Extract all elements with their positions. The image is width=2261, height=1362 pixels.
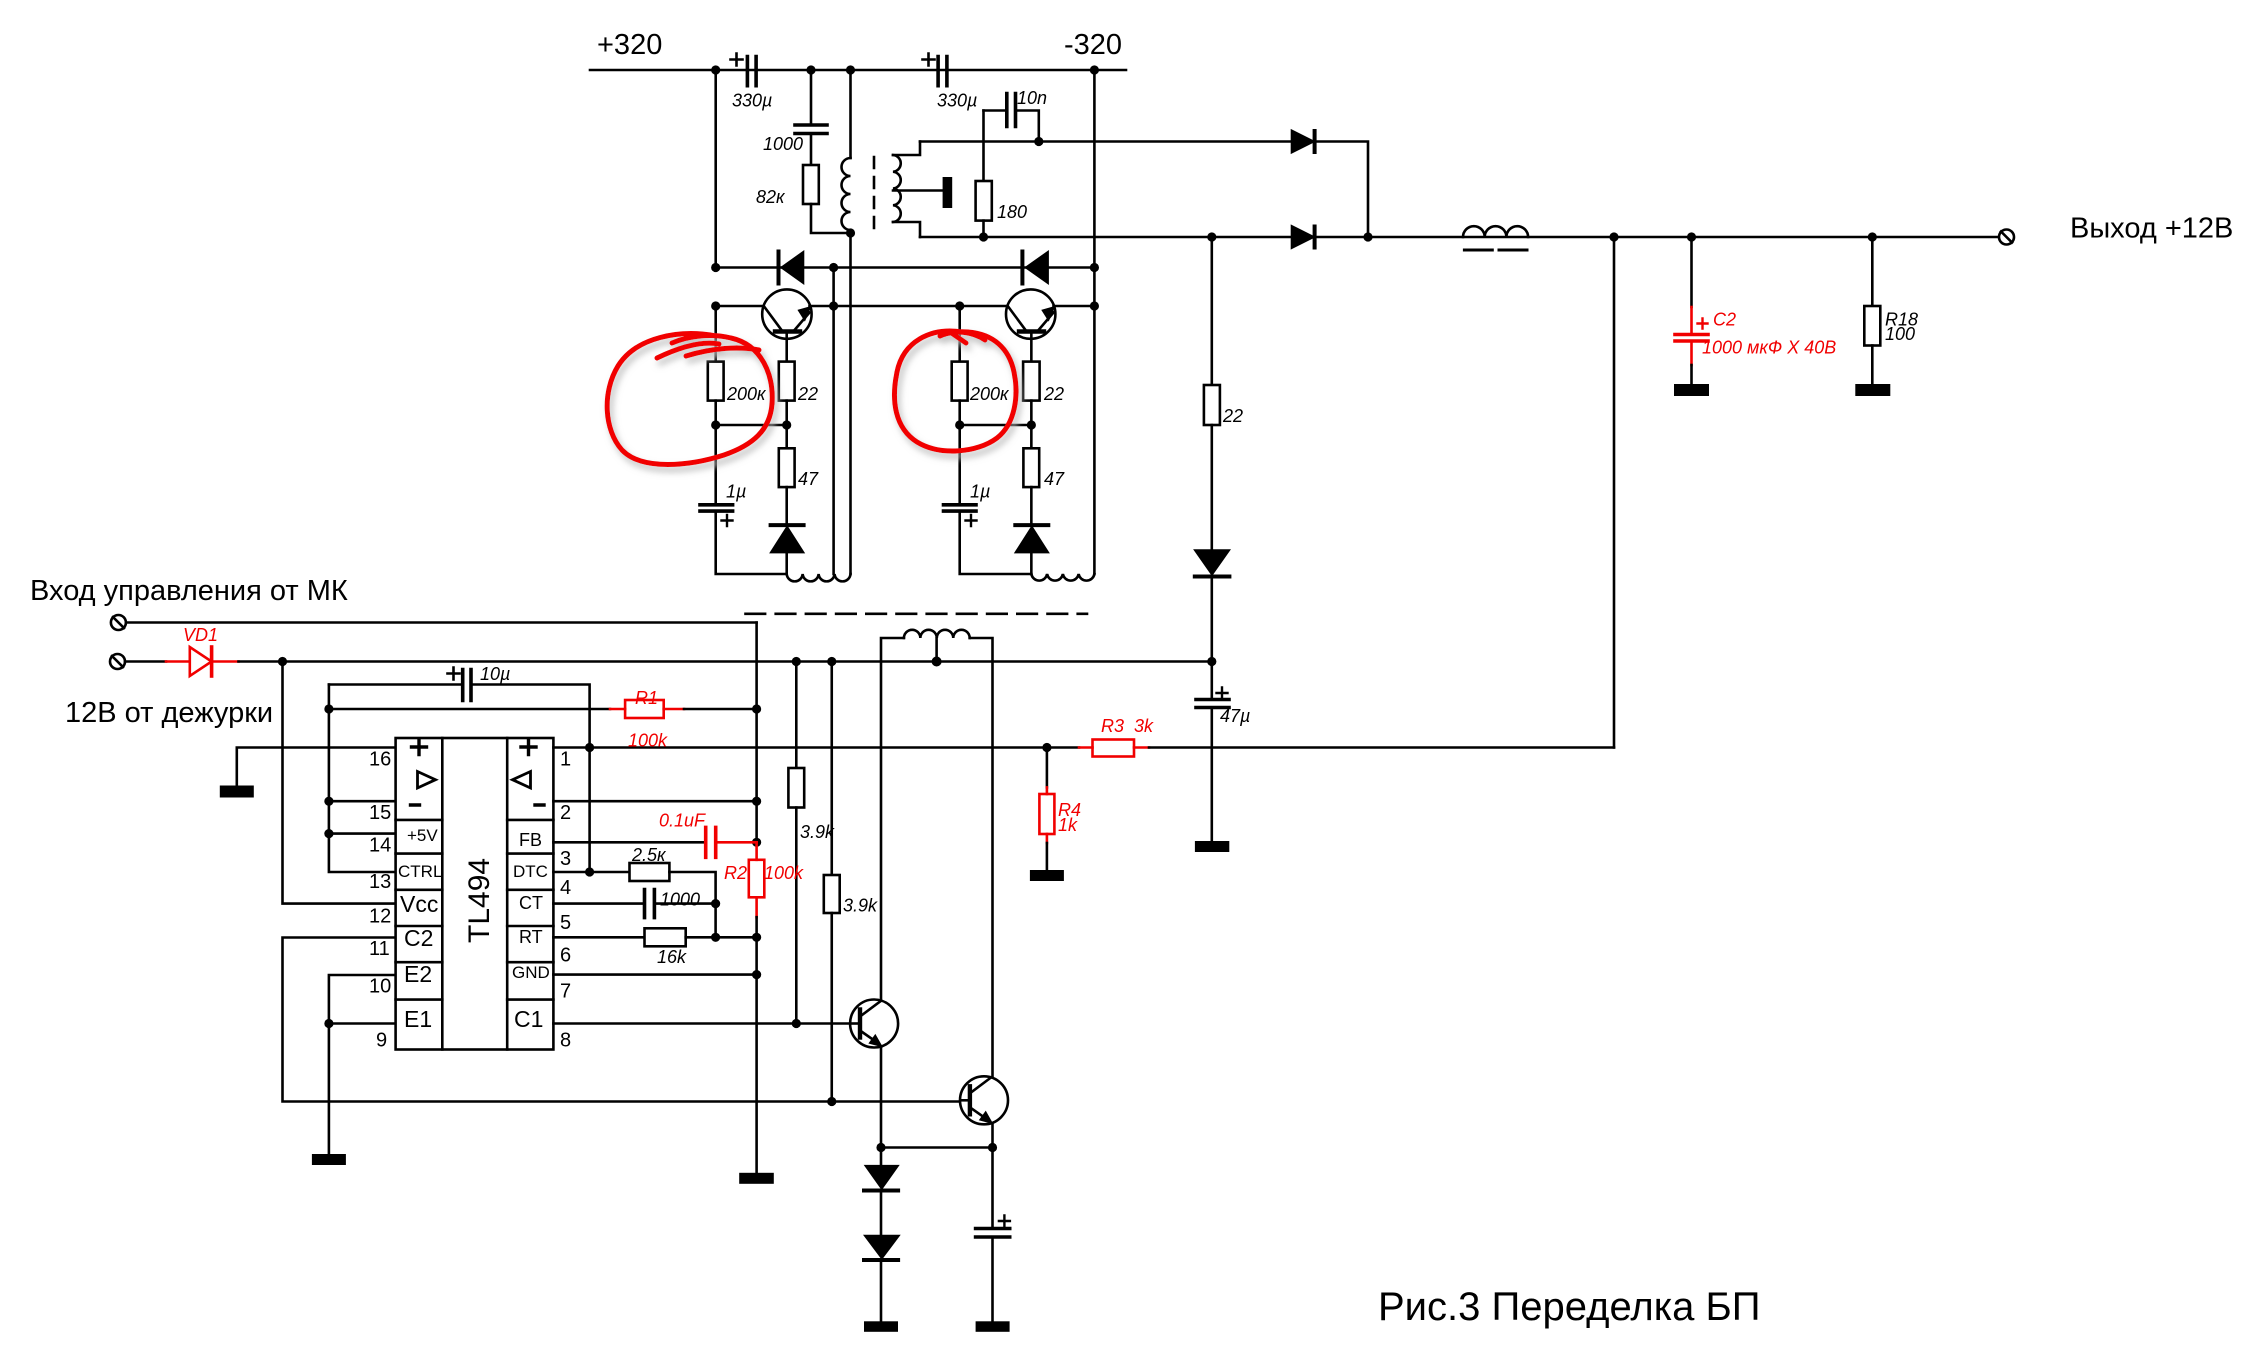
terminal input 12V standby xyxy=(110,654,125,669)
svg-text:1µ: 1µ xyxy=(970,482,990,502)
transformer core dashed line xyxy=(873,157,876,231)
wire 10n left down to resistor 180 xyxy=(982,111,985,182)
node pin2 junction xyxy=(752,797,761,806)
capacitor C2 plus sign xyxy=(1698,319,1708,329)
svg-text:Vcc: Vcc xyxy=(400,891,438,917)
node Q3 emitter junction xyxy=(876,1143,885,1152)
svg-text:1000: 1000 xyxy=(763,134,803,154)
wire left vertical from rail x715.7 down xyxy=(714,70,717,268)
svg-text:14: 14 xyxy=(369,835,391,857)
node T4 base bus at 3.9k xyxy=(827,1097,836,1106)
svg-text:10µ: 10µ xyxy=(480,664,510,684)
node diode row left x715.7 xyxy=(711,263,720,272)
transistor Q3 xyxy=(850,1000,898,1048)
svg-text:1000: 1000 xyxy=(660,890,700,910)
capacitor C2 red body xyxy=(1690,307,1693,335)
svg-text:3.9k: 3.9k xyxy=(843,896,878,916)
node 200k right top x959.7 xyxy=(955,301,964,310)
wire secondary right end down to T4 collector xyxy=(970,638,993,1077)
wire -320 vertical x1094.4 down to cell winding xyxy=(1093,70,1096,574)
diode VD1 red xyxy=(166,660,190,663)
svg-text:TL494: TL494 xyxy=(463,858,496,943)
transformer T1 secondary right winding xyxy=(893,155,901,222)
wire pin1 row y747.5 left part xyxy=(553,746,1079,749)
svg-text:16: 16 xyxy=(369,749,391,771)
wire upper rectifier line y141.5 xyxy=(920,140,1292,143)
node collector row x715.7 xyxy=(711,301,720,310)
node R1 left xyxy=(324,704,333,713)
svg-text:22: 22 xyxy=(1222,406,1243,426)
node rail junction B x811 xyxy=(806,65,815,74)
resistor R1 red xyxy=(610,708,625,711)
node 22 column top xyxy=(1207,232,1216,241)
svg-text:Выход +12В: Выход +12В xyxy=(2070,213,2233,245)
resistor 200k left xyxy=(708,362,724,401)
capacitor electrolytic Q4 emitter top lead xyxy=(991,1148,994,1229)
svg-text:Вход управления от МК: Вход управления от МК xyxy=(30,575,348,607)
wire pin9 E1 xyxy=(329,1022,396,1025)
diode clamp D6 triangle xyxy=(866,1236,899,1258)
wire pin3 FB black part xyxy=(553,841,705,844)
transformer T1 primary left winding xyxy=(842,158,851,230)
transistor Q1 xyxy=(762,289,811,338)
svg-text:47µ: 47µ xyxy=(1220,706,1250,726)
resistor R18 xyxy=(1864,306,1880,346)
wire 10n right lead down to node xyxy=(1016,111,1039,142)
node 12V at 3.9k second xyxy=(827,657,836,666)
diode rectifier bottom cathode bar xyxy=(1313,227,1317,248)
wire pin6 RT xyxy=(553,936,644,939)
capacitor 1000 plates xyxy=(795,125,827,134)
resistor 47 left top lead xyxy=(785,425,788,448)
diode snubber right cathode bar xyxy=(1020,252,1024,284)
diode rectifier top cathode bar xyxy=(1313,131,1317,152)
node GND pin7 junction xyxy=(752,970,761,979)
svg-text:8: 8 xyxy=(560,1030,571,1052)
wire secondary center tap xyxy=(935,638,938,662)
diode clamp D5 bar xyxy=(864,1189,898,1193)
wire 200k right top lead xyxy=(958,306,961,362)
svg-text:1µ: 1µ xyxy=(726,482,746,502)
svg-text:16k: 16k xyxy=(657,947,687,967)
capacitor electrolytic plus xyxy=(999,1216,1010,1227)
capacitor 47u plus xyxy=(1217,688,1228,699)
node output junction feedback x1614 xyxy=(1609,232,1618,241)
resistor 47 right xyxy=(1023,448,1039,487)
wire pin10 E2 L down to E1 xyxy=(329,975,396,1154)
node output junction C2 x1691.5 xyxy=(1687,232,1696,241)
wire 82k bottom to transformer primary xyxy=(811,204,851,233)
svg-text:9: 9 xyxy=(376,1030,387,1052)
capacitor 10u top wire left xyxy=(329,683,463,686)
node emitter row x833.6 xyxy=(829,301,838,310)
wire top diode to output line xyxy=(1315,142,1368,238)
resistor R2 red xyxy=(755,842,758,860)
wire emitter link y1147.5 xyxy=(881,1146,993,1149)
wire feedback bus vertical x756.6 lower xyxy=(755,917,758,1173)
transformer screen tap electrode xyxy=(943,177,953,208)
wire secondary top to node y141.5 xyxy=(893,142,920,156)
resistor 82k xyxy=(803,165,819,204)
node diode row x833.6 xyxy=(829,263,838,272)
svg-text:82к: 82к xyxy=(756,187,786,207)
wire 22 column top lead x1211.8 xyxy=(1211,237,1214,385)
wire 22 right bottom lead xyxy=(1030,401,1033,425)
svg-text:6: 6 xyxy=(560,945,571,967)
node emitter row x1094.4 xyxy=(1090,301,1099,310)
wire pin14 xyxy=(329,832,396,835)
wire control input to feedback bus xyxy=(126,621,757,624)
svg-text:3: 3 xyxy=(560,848,571,870)
svg-text:2: 2 xyxy=(560,802,571,824)
node connector left A xyxy=(711,420,720,429)
winding feedback left cell xyxy=(787,574,851,581)
svg-text:13: 13 xyxy=(369,871,391,893)
svg-text:DTC: DTC xyxy=(513,862,548,881)
diode cell left triangle up xyxy=(772,528,803,553)
capacitor 1000 timing plates xyxy=(645,890,655,918)
wire 1000 right to node xyxy=(654,902,715,905)
wire pin15 xyxy=(329,800,396,803)
capacitor 10u plates xyxy=(463,670,471,701)
wire Q3 emitter down xyxy=(880,1047,883,1148)
wire R4 top lead xyxy=(1046,748,1049,788)
node E1 junction xyxy=(324,1019,333,1028)
wire pin4 DTC xyxy=(553,871,629,874)
capacitor 330u left plates xyxy=(747,57,756,86)
diode snubber left cathode bar xyxy=(777,252,781,284)
svg-text:12: 12 xyxy=(369,906,391,928)
wire 47 left bottom lead xyxy=(785,487,788,525)
node R1 right end xyxy=(752,704,761,713)
svg-text:+320: +320 xyxy=(597,29,662,61)
svg-text:E2: E2 xyxy=(404,961,432,987)
svg-text:VD1: VD1 xyxy=(183,625,218,645)
wire feedback bus vertical x756.6 upper xyxy=(755,623,758,843)
wire 180 bottom to line y237 xyxy=(982,221,985,237)
svg-text:330µ: 330µ xyxy=(937,91,977,111)
resistor R3 red xyxy=(1079,746,1093,749)
wire 200k left top lead xyxy=(714,306,717,362)
node 180 bottom junction xyxy=(979,232,988,241)
svg-text:-320: -320 xyxy=(1064,29,1122,61)
diode cell right triangle up xyxy=(1016,528,1047,553)
wire 10u loop left vertical x328.9 xyxy=(329,685,396,873)
resistor 3.9k first xyxy=(788,768,804,808)
capacitor 47u top lead xyxy=(1211,662,1214,700)
node 12V at 3.9k first xyxy=(792,657,801,666)
diode column cathode bar xyxy=(1195,575,1230,579)
wire output line y237 xyxy=(920,236,1999,239)
wire Vcc feed x282.5 xyxy=(283,662,396,904)
wire rail to primary winding top x850.5 xyxy=(849,70,852,158)
capacitor 0.1uF red xyxy=(706,827,716,857)
wire 2.5k right L down to CT node xyxy=(669,872,715,904)
wire 3.9k second bottom to base bus xyxy=(830,913,833,1102)
wire pin5 CT xyxy=(553,902,644,905)
op-amp U1 TL494 body xyxy=(396,738,554,1050)
wire pin11 C2 to bottom bus xyxy=(283,938,961,1102)
wire Q2 base lead to 22 xyxy=(1030,333,1033,362)
capacitor 47u plates xyxy=(1196,700,1229,708)
wire R18 top lead xyxy=(1871,237,1874,306)
svg-text:100: 100 xyxy=(1885,324,1915,344)
svg-text:330µ: 330µ xyxy=(732,91,772,111)
svg-text:200к: 200к xyxy=(969,384,1010,404)
svg-text:7: 7 xyxy=(560,981,571,1003)
svg-text:3.9k: 3.9k xyxy=(800,822,835,842)
transistor Q2 xyxy=(1006,289,1055,338)
wire R4 bottom lead xyxy=(1046,843,1049,870)
resistor 2.5k xyxy=(630,863,670,881)
ground 47u xyxy=(1195,841,1229,852)
node DTC junction xyxy=(585,867,594,876)
svg-text:10: 10 xyxy=(369,976,391,998)
capacitor 1u left plus xyxy=(722,515,733,526)
node FB junction xyxy=(752,838,761,847)
resistor 22 third xyxy=(1204,385,1220,425)
wire 47u bottom lead xyxy=(1211,708,1214,842)
wire diode left to winding xyxy=(785,552,788,574)
svg-text:R2: R2 xyxy=(724,863,747,883)
U1 right amp symbols plus minus triangle xyxy=(521,740,544,806)
wire 12V line left black segment xyxy=(125,660,166,663)
wire 200k left bottom lead xyxy=(714,401,717,425)
wire between clamp diodes xyxy=(880,1148,883,1237)
node junction 82k/primary x850.5 y233 xyxy=(846,228,855,237)
node 10n junction y141.5 xyxy=(1034,137,1043,146)
svg-text:CTRL: CTRL xyxy=(398,862,442,881)
node 12V line meets column x1211.8 xyxy=(1207,657,1216,666)
capacitor 1u left top lead xyxy=(714,425,717,505)
node RT junction R2 bottom xyxy=(752,933,761,942)
svg-text:180: 180 xyxy=(997,202,1027,222)
wire cap 1000 to resistor 82k xyxy=(810,134,813,166)
ground feedback bus xyxy=(739,1173,774,1184)
svg-text:1000 мкФ X 40В: 1000 мкФ X 40В xyxy=(1702,338,1836,358)
inductor core dashes xyxy=(1464,249,1527,252)
wire emitter row between cells xyxy=(810,305,1009,308)
svg-text:C2: C2 xyxy=(404,925,433,951)
node pin15 junction xyxy=(324,797,333,806)
wire cap bottom to ground xyxy=(991,1237,994,1321)
svg-text:15: 15 xyxy=(369,802,391,824)
resistor 47 left xyxy=(779,448,795,487)
svg-text:12В от дежурки: 12В от дежурки xyxy=(65,697,273,729)
svg-text:C1: C1 xyxy=(514,1006,543,1032)
wire 1u left bottom L to emitter column xyxy=(716,511,787,574)
transistor Q4 xyxy=(960,1076,1008,1124)
node C1 pullup junction xyxy=(792,1019,801,1028)
svg-text:10n: 10n xyxy=(1017,88,1047,108)
svg-text:+5V: +5V xyxy=(407,826,438,845)
wire 47 right bottom lead xyxy=(1030,487,1033,525)
node rail junction D x1094.4 xyxy=(1090,65,1099,74)
capacitor C2 top lead xyxy=(1690,237,1693,307)
node pin14 junction xyxy=(324,829,333,838)
wire 3.9k first bottom to C1 row xyxy=(795,808,798,1024)
svg-text:R1: R1 xyxy=(635,688,658,708)
wire emitter row right of Q2 xyxy=(1054,305,1095,308)
resistor 3.9k second top lead xyxy=(830,662,833,876)
svg-text:4: 4 xyxy=(560,877,571,899)
wire CT node down to RT node xyxy=(714,904,717,938)
wire D6 to ground xyxy=(880,1262,883,1321)
ground R4 xyxy=(1030,870,1064,881)
annotation red circle right xyxy=(894,331,1016,451)
wire x833.6 diode row down to winding xyxy=(832,268,835,575)
node T4 emitter junction xyxy=(988,1143,997,1152)
svg-text:C2: C2 xyxy=(1713,310,1736,330)
wire secondary left end down to T3 collector xyxy=(881,638,904,1000)
ground bottom cap xyxy=(976,1321,1010,1332)
wire diode right to winding xyxy=(1030,552,1033,574)
wire x811 rail to cap 1000 xyxy=(810,70,813,125)
wire snubber diode row y267.5 xyxy=(716,266,1095,269)
diode snubber right triangle xyxy=(1026,253,1047,283)
resistor 180 xyxy=(976,181,992,221)
diode column down triangle xyxy=(1196,551,1229,575)
inductor output choke xyxy=(1463,226,1528,237)
node connector right B xyxy=(1027,420,1036,429)
wire 12V line y661.5 xyxy=(239,660,1212,663)
node 12V at x282.5 xyxy=(278,657,287,666)
capacitor 330u left plus xyxy=(731,54,743,66)
resistor 3.9k first top lead xyxy=(795,662,798,769)
wire R18 bottom lead xyxy=(1871,346,1874,385)
capacitor electrolytic plates xyxy=(976,1229,1010,1238)
svg-text:47: 47 xyxy=(798,469,819,489)
terminal input control from MK xyxy=(111,615,126,630)
node rail junction A x715.7 xyxy=(711,65,720,74)
capacitor 1u right top lead xyxy=(958,425,961,505)
wire 200k right bottom lead xyxy=(958,401,961,425)
diode clamp D6 bar xyxy=(864,1258,898,1262)
svg-text:200к: 200к xyxy=(726,384,767,404)
diode rectifier top triangle xyxy=(1292,131,1313,152)
node connector left B xyxy=(782,420,791,429)
capacitor 10n plates xyxy=(1007,94,1016,127)
resistor 16k xyxy=(645,928,686,946)
winding feedback right cell xyxy=(1031,574,1094,581)
wire pin2 xyxy=(553,800,756,803)
ground pin16 xyxy=(220,786,254,798)
wire primary winding bottom to cell winding x850.5 xyxy=(849,230,852,574)
svg-text:1: 1 xyxy=(560,749,571,771)
svg-text:0.1uF: 0.1uF xyxy=(659,811,706,831)
wire pin1 row right part to feedback vertical xyxy=(1149,746,1614,749)
diode rectifier bottom triangle xyxy=(1292,227,1313,248)
node R4 junction xyxy=(1042,743,1051,752)
svg-text:1k: 1k xyxy=(1058,815,1078,835)
wire Q4 emitter down xyxy=(991,1123,994,1147)
diode clamp D5 triangle xyxy=(866,1166,897,1188)
ground E1/E2 xyxy=(312,1154,346,1165)
wire Q1 base lead to 22 xyxy=(785,333,788,362)
wire 22 left bottom lead xyxy=(785,401,788,425)
ground R18 xyxy=(1855,384,1890,396)
svg-text:CT: CT xyxy=(519,893,543,913)
svg-text:22: 22 xyxy=(1043,384,1064,404)
capacitor 1u right plus xyxy=(966,515,977,526)
capacitor 10n left lead xyxy=(984,109,1007,112)
resistor R4 red xyxy=(1046,787,1049,794)
wire 16k right to R2 bottom xyxy=(686,936,757,939)
wire +320/-320 top rail xyxy=(590,69,1126,72)
transformer core dashed line bottom xyxy=(746,612,1088,615)
svg-text:11: 11 xyxy=(369,938,390,960)
resistor 22 left xyxy=(779,362,795,401)
diode cell left cathode bar xyxy=(771,523,804,527)
wire 22 bottom to diode xyxy=(1211,425,1214,551)
svg-text:5: 5 xyxy=(560,912,571,934)
svg-text:GND: GND xyxy=(512,963,550,982)
svg-text:2.5к: 2.5к xyxy=(631,845,667,865)
capacitor 10u plus xyxy=(448,668,460,680)
winding secondary bottom xyxy=(904,630,970,638)
node output junction R18 x1872.3 xyxy=(1868,232,1877,241)
node pin1 riser junction xyxy=(585,743,594,752)
wire R1 row left segment xyxy=(329,708,610,711)
wire secondary bottom step to y237 xyxy=(893,222,920,237)
ground C2 xyxy=(1674,384,1709,396)
U1 left amp symbols plus minus triangle xyxy=(411,740,427,806)
wire pin16 to ground xyxy=(237,748,396,786)
resistor 47 right top lead xyxy=(1030,425,1033,448)
wire cell connector right y425 xyxy=(960,424,1032,427)
node connector right A xyxy=(955,420,964,429)
annotation red circle left xyxy=(607,334,772,465)
svg-text:FB: FB xyxy=(519,830,542,850)
node RT junction xyxy=(711,933,720,942)
resistor 22 right xyxy=(1023,362,1040,401)
node diode row x1094.4 xyxy=(1090,263,1099,272)
capacitor 330u right plates xyxy=(938,57,947,86)
node rail junction C x850.5 xyxy=(846,65,855,74)
capacitor 10u top wire right and riser xyxy=(471,685,590,873)
wire cell connector left y425 xyxy=(716,424,787,427)
wire R1 row right segment xyxy=(684,708,757,711)
capacitor 1u left plates xyxy=(700,505,733,511)
node CT junction xyxy=(711,899,720,908)
wire 1u right bottom L to emitter column xyxy=(960,511,1032,574)
svg-text:22: 22 xyxy=(797,384,818,404)
transformer screen tap wire xyxy=(893,189,943,192)
node center tap on 12V line xyxy=(932,657,942,667)
wire feedback vertical x1614 xyxy=(1613,237,1616,748)
svg-text:Рис.3 Переделка БП: Рис.3 Переделка БП xyxy=(1378,1285,1760,1329)
ground clamp diodes xyxy=(864,1321,898,1332)
wire diode to 12V node xyxy=(1211,579,1214,662)
resistor 3.9k second xyxy=(824,875,840,913)
capacitor 1u right plates xyxy=(944,505,977,511)
svg-text:47: 47 xyxy=(1044,469,1065,489)
capacitor 330u right plus xyxy=(923,54,935,66)
svg-text:100k: 100k xyxy=(628,731,668,751)
diode snubber left triangle xyxy=(782,253,803,283)
svg-text:100k: 100k xyxy=(764,863,804,883)
diode cell right cathode bar xyxy=(1015,523,1048,527)
wire pin8 C1 to T3 base xyxy=(553,1022,850,1025)
resistor 200k right xyxy=(952,362,968,401)
node junction output diodes x1368 xyxy=(1363,232,1372,241)
wire pin7 GND xyxy=(553,973,756,976)
svg-text:R3 3k: R3 3k xyxy=(1101,716,1154,736)
svg-text:RT: RT xyxy=(519,927,543,947)
wire C2 bottom lead xyxy=(1690,365,1693,384)
wire collector row left cell xyxy=(716,305,765,308)
svg-text:E1: E1 xyxy=(404,1006,432,1032)
